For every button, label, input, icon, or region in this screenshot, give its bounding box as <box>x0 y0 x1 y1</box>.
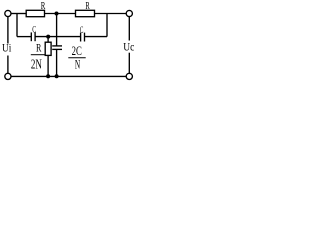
resistor R3 <box>45 42 51 55</box>
svg-text:2N: 2N <box>31 58 42 73</box>
svg-text:C: C <box>80 26 84 36</box>
wire node A drop <box>56 14 58 46</box>
wire middle rail center <box>35 36 81 38</box>
svg-text:R: R <box>85 1 89 12</box>
wire right port lower stub <box>128 53 130 74</box>
resistor R2 <box>76 10 95 16</box>
label C3 numerator 2C <box>72 43 82 58</box>
node junction dot R3 bottom <box>46 74 50 78</box>
node B junction dot <box>46 35 50 39</box>
capacitor C2 <box>81 33 85 42</box>
svg-text:Uc: Uc <box>123 40 134 54</box>
label R3 numerator R <box>36 40 41 54</box>
wire R3 to bottom rail <box>47 55 49 76</box>
wire top rail middle <box>45 13 76 15</box>
terminal Uc- <box>126 73 132 79</box>
label Uc <box>123 40 134 54</box>
fraction bar R/2N <box>31 54 45 56</box>
wire middle rail left <box>17 36 31 38</box>
terminal Uc+ <box>126 10 132 16</box>
label C3 denominator N <box>75 57 81 72</box>
svg-text:C: C <box>32 25 36 35</box>
wire left port upper stub <box>7 16 9 43</box>
svg-text:R: R <box>41 1 46 12</box>
node A junction dot <box>55 12 59 16</box>
wire middle rail right <box>85 36 108 38</box>
label Ui <box>2 40 12 54</box>
terminal Ui+ <box>5 10 11 16</box>
label C1 value C <box>32 25 36 35</box>
wire top rail left <box>11 13 26 15</box>
resistor R1 <box>26 10 44 16</box>
svg-text:Ui: Ui <box>2 40 12 54</box>
label R3 denominator 2N <box>31 58 42 73</box>
capacitor C1 <box>31 32 35 41</box>
wire bottom rail <box>11 75 127 77</box>
wire node B drop <box>47 37 49 43</box>
svg-text:R: R <box>36 40 41 54</box>
svg-text:N: N <box>75 57 81 72</box>
capacitor C3 <box>52 46 62 50</box>
node junction dot C3 bottom <box>55 74 59 78</box>
label C2 value C <box>80 26 84 36</box>
wire top rail right <box>95 13 127 15</box>
terminal Ui- <box>5 73 11 79</box>
wire left drop <box>16 14 18 37</box>
label R1 value R <box>41 1 46 12</box>
label R2 value R <box>85 1 89 12</box>
wire right drop <box>106 14 108 37</box>
wire right port upper stub <box>128 16 130 40</box>
wire C3 to bottom rail <box>56 49 58 76</box>
wire left port lower stub <box>7 56 9 74</box>
fraction bar 2C/N <box>68 57 85 59</box>
